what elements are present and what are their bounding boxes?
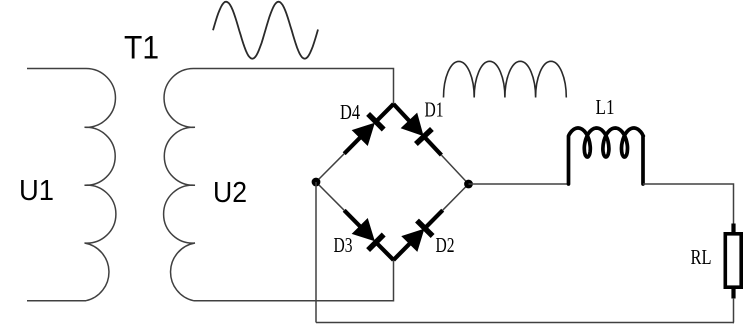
wire left node down — [315, 182, 317, 323]
diode D3 — [316, 182, 394, 260]
wire secondary top to bridge — [194, 69, 394, 105]
svg-text:U1: U1 — [19, 175, 54, 207]
diode D4 — [316, 104, 394, 182]
wire L1 to load — [643, 184, 734, 224]
resistor RL body — [725, 234, 741, 287]
wire primary top — [27, 68, 86, 70]
inductor U2 secondary winding — [164, 68, 195, 300]
AC sine waveform — [213, 2, 318, 59]
diode D2 — [394, 184, 469, 260]
wire right node to L1 — [469, 183, 569, 185]
inductor L1 — [569, 128, 644, 184]
wire secondary bottom to bridge — [194, 260, 394, 301]
svg-text:D1: D1 — [425, 98, 444, 122]
wire primary bottom — [27, 300, 86, 302]
wire load bottom — [733, 298, 736, 323]
rectified waveform — [444, 61, 567, 97]
svg-text:D3: D3 — [334, 233, 353, 257]
svg-text:L1: L1 — [596, 95, 615, 119]
svg-text:RL: RL — [691, 245, 712, 269]
svg-text:D4: D4 — [340, 100, 360, 124]
svg-text:U2: U2 — [213, 177, 247, 209]
svg-text:T1: T1 — [124, 30, 159, 66]
resistor RL lead top — [731, 224, 735, 234]
wire bottom return — [316, 322, 734, 324]
resistor RL lead bottom — [731, 288, 735, 299]
diode D1 — [394, 104, 469, 184]
node minus (left bridge node) — [312, 178, 321, 187]
node plus (right bridge node) — [464, 180, 473, 189]
svg-text:D2: D2 — [436, 233, 455, 257]
inductor U1 primary winding — [85, 68, 116, 300]
